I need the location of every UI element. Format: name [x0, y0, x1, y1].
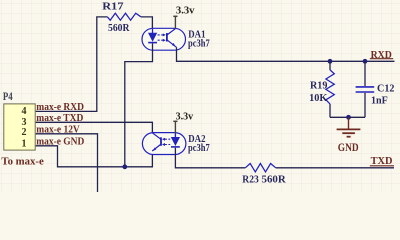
svg-text:pc3h7: pc3h7	[188, 39, 210, 50]
svg-text:max-e GND: max-e GND	[36, 136, 84, 147]
resistor R17	[107, 13, 141, 20]
svg-text:560R: 560R	[262, 174, 287, 185]
opto-coupler DA1 body	[142, 28, 186, 50]
svg-text:P4: P4	[3, 91, 13, 103]
svg-text:3.3v: 3.3v	[176, 6, 195, 17]
DA1 LED	[148, 29, 157, 43]
R19 value 10K	[309, 93, 328, 104]
net label max-e GND	[36, 136, 84, 147]
svg-text:10K: 10K	[309, 93, 328, 104]
C12 value 1nF	[371, 96, 388, 107]
pin number 2	[22, 127, 27, 138]
svg-text:R19: R19	[310, 81, 327, 92]
wire pin2 down to sheet edge (net max-e 12V)	[36, 134, 98, 192]
DA1 light arrows	[158, 33, 166, 41]
pin number 1	[22, 139, 27, 150]
svg-text:max-e 12V: max-e 12V	[36, 124, 80, 135]
port RXD	[370, 50, 393, 61]
svg-text:4: 4	[22, 106, 27, 117]
resistor R19	[326, 61, 334, 117]
C12 designator	[377, 83, 395, 94]
junction dot at R19	[328, 59, 333, 64]
svg-text:R23: R23	[242, 174, 258, 185]
svg-text:pc3h7: pc3h7	[188, 143, 210, 154]
port TXD	[370, 156, 394, 167]
svg-text:1: 1	[22, 139, 27, 150]
text To max-e	[1, 156, 44, 168]
wire 3.3v to DA2 LED cathode to R23	[175, 148, 245, 168]
R19 designator	[310, 81, 327, 92]
svg-text:max-e TXD: max-e TXD	[36, 113, 83, 124]
svg-text:GND: GND	[338, 140, 359, 154]
R23 designator	[242, 174, 258, 185]
wire DA1 emitter to RXD port	[177, 47, 395, 61]
junction dot	[122, 164, 127, 169]
pin number 4	[22, 106, 27, 117]
wire pin1 down and right to DA2 emitter (net max-e GND)	[36, 146, 153, 167]
svg-text:3.3v: 3.3v	[176, 112, 194, 123]
DA2 designator	[188, 134, 205, 145]
svg-text:560R: 560R	[108, 23, 130, 34]
connector P4 body	[4, 104, 35, 150]
wire R23 to TXD port	[276, 167, 394, 169]
svg-text:To max-e: To max-e	[1, 156, 44, 168]
svg-text:TXD: TXD	[371, 156, 393, 167]
DA1 designator	[188, 30, 205, 41]
R17 designator	[102, 2, 123, 13]
wire DA1 cathode down-left-down to junction	[125, 43, 153, 166]
R17 value 560R	[108, 23, 130, 34]
svg-text:R17: R17	[102, 2, 123, 13]
net label max-e RXD	[36, 102, 84, 113]
wire pin3 to DA2 collector (net max-e TXD)	[36, 122, 153, 132]
connector P4 designator	[3, 91, 13, 103]
DA2 LED	[171, 133, 180, 147]
net label max-e 12V	[36, 124, 80, 135]
pin number 3	[22, 117, 27, 128]
capacitor C12	[356, 61, 375, 117]
power port 3.3v (DA1)	[173, 6, 195, 29]
junction dot at C12	[363, 59, 368, 64]
svg-text:1nF: 1nF	[371, 96, 388, 107]
svg-text:2: 2	[22, 127, 27, 138]
DA2 value pc3h7	[188, 143, 210, 154]
junction dot at GND	[346, 115, 351, 120]
wire R19 bottom to C12 bottom	[330, 116, 365, 118]
wire R17 to DA1 LED anode	[141, 17, 153, 33]
DA1 value pc3h7	[188, 39, 210, 50]
ground GND	[337, 117, 361, 154]
svg-text:C12: C12	[377, 83, 395, 94]
wire pin4 to R17 (net max-e RXD)	[36, 17, 108, 112]
power port 3.3v (DA2)	[173, 112, 194, 134]
resistor R23	[245, 164, 275, 172]
svg-text:max-e RXD: max-e RXD	[36, 102, 84, 113]
DA2 phototransistor	[152, 133, 161, 151]
R23 value 560R	[262, 174, 287, 185]
DA1 phototransistor	[167, 29, 177, 48]
net label max-e TXD	[36, 113, 83, 124]
opto-coupler DA2 body	[142, 133, 186, 155]
DA2 light arrows	[162, 138, 170, 146]
